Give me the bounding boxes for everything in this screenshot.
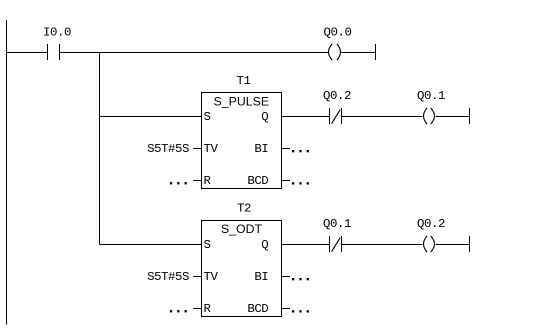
coil Q0.1 parens xyxy=(424,108,428,124)
contact Q0.2 NC slash xyxy=(332,110,341,124)
wire T1 TV input stub xyxy=(193,148,202,150)
svg-text:R: R xyxy=(204,174,212,188)
svg-text:S5T#5S: S5T#5S xyxy=(147,142,189,156)
svg-text:BCD: BCD xyxy=(247,302,268,316)
wire T1 Q output segment xyxy=(282,116,330,118)
wire rung1 left segment xyxy=(7,52,48,54)
coil Q0.2 parens xyxy=(424,236,428,252)
svg-text:Q: Q xyxy=(261,238,268,252)
svg-text:T1: T1 xyxy=(237,74,251,88)
wire T1 BI output stub xyxy=(282,148,291,150)
svg-text:I0.0: I0.0 xyxy=(43,26,71,40)
timer block U1 T1 body xyxy=(202,93,282,189)
dots T2 BCD output "..." xyxy=(292,310,294,312)
svg-text:TV: TV xyxy=(204,142,219,156)
branch wire vertical xyxy=(99,53,101,245)
svg-text:S: S xyxy=(204,110,211,124)
svg-text:Q0.1: Q0.1 xyxy=(323,217,351,231)
svg-text:Q0.2: Q0.2 xyxy=(323,89,351,103)
contact Q0.2 bars (NC) xyxy=(329,108,331,124)
wire T2 R input stub xyxy=(193,308,202,310)
svg-text:Q: Q xyxy=(261,110,268,124)
wire rung2 right segment xyxy=(436,116,470,118)
wire rung2 middle segment xyxy=(342,116,423,118)
wire T1 S input xyxy=(100,116,202,118)
svg-text:TV: TV xyxy=(204,270,219,284)
timer block U2 T2 body xyxy=(202,221,282,317)
dots T2 BI output "..." xyxy=(292,278,294,280)
contact Q0.1 bars (NC) xyxy=(329,236,331,252)
dots T1 BI output "..." xyxy=(292,150,294,152)
svg-text:Q0.2: Q0.2 xyxy=(417,217,445,231)
svg-text:S: S xyxy=(204,238,211,252)
svg-text:S5T#5S: S5T#5S xyxy=(147,270,189,284)
wire T1 BCD output stub xyxy=(282,180,291,182)
svg-text:BI: BI xyxy=(254,142,268,156)
rung1 end tick xyxy=(375,44,377,60)
svg-text:BI: BI xyxy=(254,270,268,284)
svg-text:Q0.1: Q0.1 xyxy=(417,89,445,103)
coil Q0.0 parens xyxy=(329,44,333,60)
wire T2 Q output segment xyxy=(282,244,330,246)
contact I0.0 bars xyxy=(47,44,49,60)
dots T1 BCD output "..." xyxy=(292,182,294,184)
contact Q0.1 NC slash xyxy=(332,238,341,252)
wire rung3 right segment xyxy=(436,244,470,246)
wire T2 TV input stub xyxy=(193,276,202,278)
wire rung1 middle segment xyxy=(60,52,329,54)
dots T1 R input "..." xyxy=(170,182,172,184)
rung3 end tick xyxy=(469,236,471,252)
wire T2 BCD output stub xyxy=(282,308,291,310)
wire T1 R input stub xyxy=(193,180,202,182)
svg-text:R: R xyxy=(204,302,212,316)
wire rung1 right segment xyxy=(341,52,376,54)
left power rail xyxy=(6,20,8,325)
wire rung3 middle segment xyxy=(342,244,423,246)
svg-text:BCD: BCD xyxy=(247,174,268,188)
wire T2 S input xyxy=(100,244,202,246)
wire T2 BI output stub xyxy=(282,276,291,278)
dots T2 R input "..." xyxy=(170,310,172,312)
svg-text:Q0.0: Q0.0 xyxy=(324,26,352,40)
svg-text:T2: T2 xyxy=(237,202,251,216)
svg-text:S_ODT: S_ODT xyxy=(221,222,263,236)
rung2 end tick xyxy=(469,108,471,124)
svg-text:S_PULSE: S_PULSE xyxy=(214,94,270,108)
